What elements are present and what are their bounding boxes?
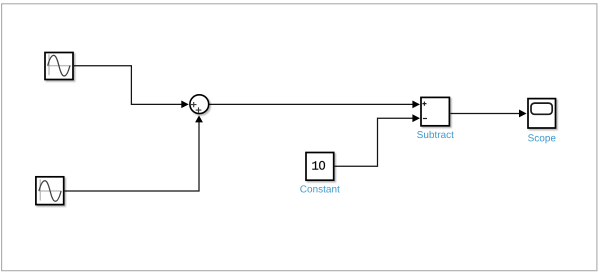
block Scope [528,99,556,128]
Sum plus sign (bottom input) [196,107,202,112]
arrowhead into Sum left input [181,101,189,109]
block Constant [306,153,334,181]
Subtract plus sign [422,102,426,106]
Sine Wave 1 icon curve [48,55,70,76]
Sine Wave 1 icon axes [48,54,72,75]
block Subtract [421,97,449,125]
Sum plus sign (left input) [191,102,197,107]
Sine Wave 2 icon curve [39,181,61,202]
wire: Sine Wave 2 to Sum [65,122,199,191]
wire: Sine Wave 1 to Sum [74,66,182,105]
arrowhead into Scope input [519,110,527,118]
Sine Wave 2 icon axes [39,179,61,200]
wire: Subtract to Scope [450,112,520,114]
arrowhead into Subtract + input [412,100,420,108]
block Sine Wave 2 [36,177,64,205]
Constant value text 10 [312,161,325,170]
Scope screen [531,103,552,114]
Subtract minus sign [423,118,427,120]
block Sum (circle) [190,95,209,114]
wire: Sum to Subtract [209,103,413,105]
label Subtract [417,131,454,138]
arrowhead into Subtract - input [412,114,420,122]
wire: Constant to Subtract [335,118,414,166]
arrowhead into Sum bottom input [195,115,203,122]
label Constant [300,185,339,192]
label Scope [528,134,555,143]
block Sine Wave 1 [45,53,73,80]
